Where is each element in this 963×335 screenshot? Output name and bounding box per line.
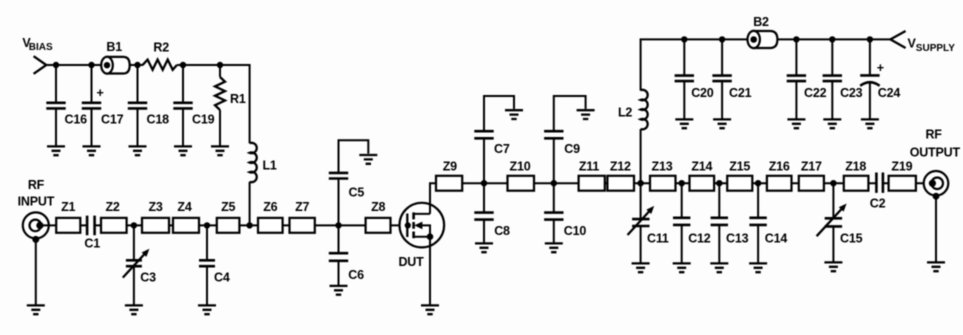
capacitor C9 xyxy=(544,131,563,138)
svg-text:B1: B1 xyxy=(106,40,122,54)
wire C10 lower xyxy=(553,220,555,244)
ground C23 xyxy=(823,119,841,128)
svg-text:Z19: Z19 xyxy=(891,160,912,174)
wire C20 lower xyxy=(683,81,685,119)
svg-text:C12: C12 xyxy=(688,232,711,246)
wire C19 upper xyxy=(182,65,184,103)
svg-text:SUPPLY: SUPPLY xyxy=(916,43,955,54)
capacitor C23 xyxy=(823,76,842,82)
svg-text:R1: R1 xyxy=(230,92,246,106)
svg-text:Z15: Z15 xyxy=(729,160,750,174)
wire C18 lower xyxy=(137,108,139,146)
svg-text:Z2: Z2 xyxy=(106,200,120,214)
impedance Z5 xyxy=(217,218,240,233)
ferrite bead B2 xyxy=(748,15,778,48)
capacitor C12 xyxy=(673,218,690,225)
wire C15 lower xyxy=(832,226,834,262)
wire C12 lower xyxy=(681,225,683,264)
impedance Z10 xyxy=(508,176,535,191)
wire C15 upper xyxy=(832,183,834,217)
svg-text:C9: C9 xyxy=(564,142,580,156)
wire C6 lower xyxy=(338,261,340,286)
ground RF input xyxy=(27,305,45,314)
impedance Z3 xyxy=(142,218,169,233)
node C14 junction xyxy=(755,180,761,186)
svg-text:C24: C24 xyxy=(878,86,901,100)
ground DUT source xyxy=(421,305,439,314)
capacitor C13 xyxy=(711,218,728,225)
wire C11 lower xyxy=(640,226,642,264)
impedance Z8 xyxy=(366,218,391,233)
svg-text:Z12: Z12 xyxy=(610,160,631,174)
svg-text:C4: C4 xyxy=(214,271,230,285)
ground C17 xyxy=(83,146,101,155)
capacitor C7 xyxy=(474,131,493,138)
capacitor C2 (series) xyxy=(876,173,883,193)
ground C7 (above) xyxy=(505,110,523,119)
impedance Z13 xyxy=(650,176,676,191)
wire bias line R2 to corner down to L1 xyxy=(177,65,250,143)
ground C15 xyxy=(824,262,842,271)
impedance Z19 xyxy=(889,176,916,191)
capacitor C3 (variable) xyxy=(126,260,142,266)
node C15 junction xyxy=(830,180,836,186)
node L2 C11 junction xyxy=(637,180,643,186)
wire C9 to upper ground xyxy=(554,96,586,131)
ground C12 xyxy=(673,263,691,272)
node L1 junction xyxy=(246,222,252,228)
svg-text:C18: C18 xyxy=(147,113,170,127)
svg-text:C15: C15 xyxy=(840,232,863,246)
wire C7 lower xyxy=(483,139,485,183)
capacitor C20 xyxy=(675,76,694,82)
wire C19 lower xyxy=(182,108,184,146)
svg-text:RF: RF xyxy=(925,127,942,141)
svg-text:DUT: DUT xyxy=(398,255,424,269)
svg-text:Z10: Z10 xyxy=(510,160,531,174)
wire C8 lower xyxy=(483,220,485,244)
capacitor C10 xyxy=(544,213,563,220)
capacitor C1 (series) xyxy=(87,216,95,236)
wire C12 upper xyxy=(681,183,683,217)
ground C6 xyxy=(330,286,348,295)
impedance Z11 xyxy=(579,176,605,191)
impedance Z4 xyxy=(173,218,199,233)
wire C7 to upper ground xyxy=(484,96,514,131)
impedance Z18 xyxy=(844,176,869,191)
svg-text:Z18: Z18 xyxy=(845,160,866,174)
ground C16 xyxy=(47,146,65,155)
capacitor C4 xyxy=(199,260,215,266)
svg-text:Z4: Z4 xyxy=(177,200,191,214)
ground C20 xyxy=(675,119,693,128)
svg-text:Z9: Z9 xyxy=(443,160,457,174)
wire C23 lower xyxy=(831,81,833,119)
wire L2 lower xyxy=(640,129,642,183)
node C21 junction xyxy=(719,36,725,42)
wire input line C1 to DUT gate xyxy=(95,224,408,226)
ground C4 xyxy=(198,305,216,314)
wire C17 lower xyxy=(91,108,93,146)
impedance Z17 xyxy=(799,176,824,191)
svg-text:INPUT: INPUT xyxy=(18,194,55,208)
ground C13 xyxy=(710,263,728,272)
impedance Z12 xyxy=(607,176,634,191)
wire C8 upper xyxy=(483,183,485,211)
capacitor C6 xyxy=(329,253,348,261)
svg-text:Z11: Z11 xyxy=(579,160,599,174)
wire C22 lower xyxy=(795,81,797,119)
node C13 junction xyxy=(716,180,722,186)
svg-text:Z14: Z14 xyxy=(691,160,712,174)
wire RF input connector ground lead xyxy=(35,239,37,305)
svg-text:C20: C20 xyxy=(691,86,714,100)
wire R1 upper xyxy=(219,65,221,77)
node C18 junction xyxy=(134,62,140,68)
transistor DUT (N-channel MOSFET) xyxy=(398,203,444,269)
wire C24 upper xyxy=(869,39,871,74)
svg-text:+: + xyxy=(96,86,103,100)
wire input line connector to C1 xyxy=(40,224,87,226)
svg-text:B2: B2 xyxy=(753,15,769,29)
capacitor C24 (polarized) xyxy=(860,74,879,77)
node R1 junction xyxy=(217,62,223,68)
wire C11 upper xyxy=(640,183,642,218)
node C9 C10 junction xyxy=(551,180,557,186)
svg-text:OUTPUT: OUTPUT xyxy=(910,145,961,159)
wire L1 to input line xyxy=(249,182,251,226)
svg-text:C13: C13 xyxy=(726,232,749,246)
svg-text:C14: C14 xyxy=(765,232,788,246)
svg-text:C2: C2 xyxy=(870,197,886,211)
ground C5 (above) xyxy=(359,155,377,164)
svg-text:C21: C21 xyxy=(729,86,752,100)
wire C20 upper xyxy=(683,39,685,74)
wire C5 to upper ground xyxy=(339,140,369,173)
svg-text:C23: C23 xyxy=(840,86,863,100)
wire C21 upper xyxy=(721,39,723,74)
impedance Z14 xyxy=(690,176,715,191)
wire C3 upper xyxy=(133,225,135,259)
impedance Z15 xyxy=(727,176,752,191)
capacitor C5 xyxy=(329,173,348,179)
svg-text:L2: L2 xyxy=(618,105,632,119)
svg-text:Z6: Z6 xyxy=(263,200,277,214)
node C22 junction xyxy=(793,36,799,42)
node C23 junction xyxy=(829,36,835,42)
capacitor C19 xyxy=(173,103,192,109)
RF output connector J2 xyxy=(910,127,961,199)
wire C13 upper xyxy=(718,183,720,217)
svg-text:C10: C10 xyxy=(564,224,587,238)
wire C22 upper xyxy=(795,39,797,74)
RF input connector J1 xyxy=(18,178,55,243)
svg-text:C7: C7 xyxy=(494,142,510,156)
wire C14 lower xyxy=(757,225,759,264)
wire C6 upper xyxy=(338,225,340,252)
node C3 junction xyxy=(131,222,137,228)
node C19 junction xyxy=(180,62,186,68)
ground C8 xyxy=(475,243,493,252)
svg-text:C11: C11 xyxy=(647,232,669,246)
impedance Z2 xyxy=(101,218,127,233)
ground C9 (above) xyxy=(577,110,595,119)
wire C17 upper xyxy=(91,65,93,103)
inductor L2 xyxy=(641,90,648,129)
wire C4 lower xyxy=(206,266,208,305)
wire C23 upper xyxy=(831,39,833,74)
capacitor C11 (variable) xyxy=(632,219,649,226)
wire C13 lower xyxy=(718,225,720,264)
impedance Z16 xyxy=(767,176,792,191)
svg-text:C17: C17 xyxy=(101,113,124,127)
wire RF output connector ground lead xyxy=(935,196,937,262)
node C7 C8 junction xyxy=(481,180,487,186)
svg-text:BIAS: BIAS xyxy=(29,42,53,53)
svg-text:C3: C3 xyxy=(140,271,156,285)
svg-text:C5: C5 xyxy=(349,185,365,199)
wire C24 lower xyxy=(869,82,871,119)
wire DUT drain to output line xyxy=(430,183,875,214)
ground C18 xyxy=(129,146,147,155)
impedance Z1 xyxy=(56,218,80,233)
wire C3 lower xyxy=(133,266,135,305)
ground RF output xyxy=(927,262,945,271)
wire C5 lower xyxy=(338,180,340,226)
ground C10 xyxy=(545,243,563,252)
capacitor C8 xyxy=(474,213,493,220)
wire DUT source to ground xyxy=(429,237,431,306)
ground C19 xyxy=(174,146,192,155)
capacitor C16 xyxy=(46,103,65,109)
capacitor C15 (variable) xyxy=(825,218,842,226)
resistor R2 xyxy=(143,60,177,70)
svg-text:R2: R2 xyxy=(153,41,169,55)
svg-text:C19: C19 xyxy=(192,113,215,127)
svg-text:Z1: Z1 xyxy=(61,200,75,214)
connector arrow V_SUPPLY xyxy=(890,31,905,48)
impedance Z7 xyxy=(290,218,315,233)
capacitor C14 xyxy=(749,218,766,225)
svg-text:C1: C1 xyxy=(84,236,100,250)
node C4 junction xyxy=(204,222,210,228)
wire C10 upper xyxy=(553,183,555,211)
node C17 junction xyxy=(88,62,94,68)
node C5 C6 junction xyxy=(335,222,341,228)
impedance Z6 xyxy=(258,218,283,233)
node C16 junction xyxy=(53,62,59,68)
svg-text:C22: C22 xyxy=(804,86,827,100)
connector arrow V_BIAS xyxy=(34,56,47,74)
svg-text:L1: L1 xyxy=(263,158,277,172)
svg-text:Z8: Z8 xyxy=(371,200,385,214)
svg-text:Z17: Z17 xyxy=(801,160,822,174)
wire C4 upper xyxy=(206,225,208,259)
wire L2 to supply line xyxy=(641,39,891,90)
resistor R1 xyxy=(215,77,225,110)
impedance Z9 xyxy=(436,176,462,191)
wire output line C2 to connector xyxy=(884,182,933,184)
svg-text:Z3: Z3 xyxy=(149,200,163,214)
svg-text:Z7: Z7 xyxy=(295,200,309,214)
wire C14 upper xyxy=(757,183,759,217)
capacitor C17 (polarized) xyxy=(82,103,101,109)
wire C16 upper xyxy=(55,65,57,103)
ferrite bead B1 xyxy=(101,40,130,74)
wire C9 lower xyxy=(553,139,555,183)
svg-text:Z16: Z16 xyxy=(769,160,790,174)
svg-text:C8: C8 xyxy=(494,224,510,238)
svg-text:Z5: Z5 xyxy=(221,200,235,214)
svg-text:C6: C6 xyxy=(348,268,364,282)
ground C24 xyxy=(861,119,879,128)
ground C3 xyxy=(125,305,143,314)
capacitor C21 xyxy=(712,76,731,82)
ground C22 xyxy=(787,119,805,128)
ground C11 xyxy=(632,263,650,272)
inductor L1 xyxy=(250,143,257,182)
wire C21 lower xyxy=(721,81,723,119)
wire C16 lower xyxy=(55,108,57,146)
ground C14 xyxy=(749,263,767,272)
svg-text:Z13: Z13 xyxy=(652,160,673,174)
node C12 junction xyxy=(679,180,685,186)
svg-text:C16: C16 xyxy=(65,113,88,127)
wire bias line V_BIAS to R2 xyxy=(46,64,143,66)
ground R1 xyxy=(211,146,229,155)
node C24 junction xyxy=(867,36,873,42)
wire C18 upper xyxy=(137,65,139,103)
svg-text:+: + xyxy=(877,61,884,75)
ground C21 xyxy=(713,119,731,128)
capacitor C22 xyxy=(787,76,806,82)
wire R1 lower xyxy=(219,110,221,147)
node C20 junction xyxy=(681,36,687,42)
capacitor C18 xyxy=(128,103,147,109)
svg-text:RF: RF xyxy=(28,178,45,192)
